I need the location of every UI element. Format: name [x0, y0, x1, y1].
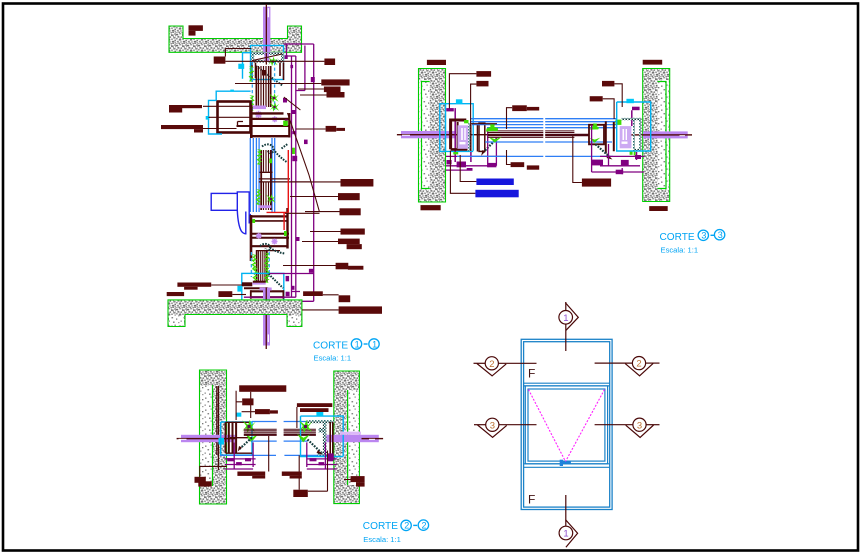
blob above left wall	[427, 60, 446, 65]
top concrete slab hatch	[169, 26, 302, 52]
svg-text:2: 2	[636, 359, 641, 370]
glass blue lines bottom	[457, 142, 613, 156]
right frame members (checker profile)	[307, 420, 334, 455]
svg-text:3: 3	[718, 230, 723, 240]
right purple fills	[310, 453, 334, 465]
glazing cyan dashed lines 1	[252, 62, 274, 110]
blob below right wall	[649, 206, 668, 211]
leaders	[200, 391, 351, 492]
lavender asterisk 1	[255, 111, 262, 118]
glass pane maroon lines	[488, 131, 589, 138]
label CORTE 3-3	[660, 230, 725, 255]
blob head-left	[214, 57, 226, 64]
cyan tab on band at wall	[219, 438, 225, 445]
right wall inner green line	[347, 390, 349, 485]
blob r126	[326, 126, 345, 132]
svg-text:CORTE: CORTE	[660, 232, 695, 243]
glass spacer top	[262, 70, 266, 76]
right glazing bundle	[284, 429, 316, 435]
right diagonal brace	[596, 144, 613, 159]
middle pane frame	[525, 386, 607, 464]
purple fills head right	[285, 55, 294, 68]
bundle 3 cyan dashes	[251, 252, 269, 277]
mid horizontal leader lines through board	[203, 106, 251, 128]
sill cyan detail box	[242, 273, 284, 304]
bottom mullion tube	[263, 288, 270, 350]
sill purple lines	[270, 274, 314, 292]
left diagonal brace	[481, 138, 497, 156]
head frame profile	[252, 52, 285, 80]
bundle 3 edges	[257, 250, 267, 282]
left wall anchor line	[217, 386, 219, 470]
teal gasket curl	[262, 144, 288, 163]
bundle 2 thick edges	[261, 150, 271, 210]
bundle 3 gaskets	[251, 254, 257, 270]
green tabs mid	[252, 219, 286, 236]
svg-text:2: 2	[422, 520, 427, 530]
cyan tab head-left	[238, 64, 244, 69]
lavender asterisk 3	[256, 233, 262, 239]
sill diagonal	[269, 274, 284, 288]
right wall sparse strip	[348, 390, 358, 485]
svg-text:Escala: 1:1: Escala: 1:1	[363, 535, 401, 544]
svg-text:Escala: 1:1: Escala: 1:1	[661, 246, 699, 255]
blob left-105	[169, 105, 202, 113]
section marker 1 top	[559, 302, 578, 351]
glass blue lines top	[471, 119, 617, 128]
sill profile	[242, 282, 284, 299]
left purple substructure	[446, 131, 505, 170]
right purple channel	[307, 442, 337, 469]
left cyan detail box	[440, 104, 473, 152]
left wall sparse zone	[200, 386, 212, 486]
glazing bundle 2	[264, 150, 269, 210]
red reference line	[267, 150, 289, 230]
leader lines	[211, 49, 340, 310]
head gaskets	[249, 66, 255, 82]
blob left-125	[161, 125, 203, 133]
left glazing bundle	[244, 429, 277, 435]
svg-text:3: 3	[637, 420, 642, 431]
svg-text:3: 3	[490, 420, 495, 431]
glazing bundle 1	[259, 66, 269, 107]
svg-text:2: 2	[404, 521, 409, 531]
left sill band lavender	[397, 131, 521, 138]
svg-text:1: 1	[563, 313, 568, 324]
second frame	[524, 342, 610, 507]
purple squares on frame right	[283, 98, 308, 161]
sill band lavender	[177, 435, 384, 442]
purple bottom closing lines	[244, 297, 314, 301]
left cyan detail box	[221, 422, 252, 455]
purple square markers	[296, 77, 315, 273]
left purple fills	[227, 458, 251, 465]
svg-text:CORTE: CORTE	[313, 340, 348, 351]
svg-text:1: 1	[372, 339, 377, 349]
head diagonal strut	[256, 66, 283, 86]
gaskets below bundle 1	[249, 95, 255, 111]
bottom slab sparse feet	[169, 316, 301, 326]
right column blobs	[336, 179, 382, 314]
glazing bundle 3	[259, 250, 265, 282]
cyan tab on board box	[206, 116, 210, 120]
head frame cyan detail box	[251, 46, 284, 80]
blue pivot mark	[560, 460, 571, 466]
bottom concrete slab hatch	[168, 300, 302, 327]
upper right purple projection lines	[284, 44, 314, 301]
cyan tab top	[230, 90, 234, 92]
svg-text:F: F	[528, 493, 535, 507]
right cyan tab	[626, 99, 634, 103]
left jamb frame	[446, 108, 485, 162]
right purple substructure	[592, 125, 645, 174]
head small diagonal	[284, 97, 301, 110]
head internal diagonal	[252, 54, 282, 61]
right wall inner green bracket	[658, 82, 667, 189]
right cyan detail box	[617, 102, 651, 151]
bundle 2 gaskets	[257, 149, 263, 165]
svg-text:Escala: 1:1: Escala: 1:1	[314, 354, 352, 363]
left wall inner green line	[212, 385, 214, 486]
sash meeting rail	[259, 172, 310, 182]
right wall sparse strip	[658, 80, 669, 190]
sill left blobs	[167, 283, 323, 298]
top mullion tube (lavender)	[263, 4, 270, 54]
left gasket top line	[471, 123, 497, 125]
tube continuation into head	[264, 53, 269, 65]
window board box (left)	[218, 102, 251, 133]
top divider	[524, 383, 610, 386]
right cyan detail box	[301, 416, 344, 456]
head frame cyan box extension	[243, 53, 284, 79]
big wedge diagonal	[285, 113, 320, 213]
blob r79	[321, 79, 349, 97]
left wall hatch	[200, 370, 227, 504]
annotation blob on slab	[189, 25, 203, 35]
right gasket X	[299, 420, 312, 433]
left wall sparse strip	[419, 80, 430, 190]
svg-text:3: 3	[701, 231, 706, 241]
svg-text:F: F	[528, 367, 535, 381]
left wall inner green bracket	[422, 82, 430, 189]
left gasket V	[489, 137, 502, 143]
glass blue lines	[220, 422, 331, 456]
left gasket clamp	[486, 124, 498, 131]
section marker 3 right	[595, 418, 660, 437]
blob above right wall	[643, 60, 663, 65]
light violet step above band	[340, 432, 361, 435]
label CORTE 2-2	[363, 520, 429, 544]
right wall hatch	[334, 371, 360, 504]
label CORTE 1-1	[313, 339, 379, 363]
opening V lines magenta	[529, 390, 605, 462]
left purple fills	[447, 160, 497, 170]
right jamb frame	[589, 107, 642, 160]
svg-text:CORTE: CORTE	[363, 521, 398, 532]
svg-text:2: 2	[489, 359, 494, 370]
svg-text:1: 1	[355, 339, 360, 349]
lavender asterisk 4	[272, 239, 278, 245]
blue highlighted blobs	[475, 179, 518, 198]
section marker 2 left	[474, 357, 537, 376]
right diagonal brace	[308, 440, 323, 455]
section marker 2 right	[595, 357, 660, 376]
blobs	[195, 385, 365, 497]
sill purple bits	[286, 276, 295, 296]
left cyan tab	[456, 99, 463, 103]
right cyan tab	[316, 412, 323, 417]
lavender asterisk 2	[272, 116, 278, 122]
left cyan tab	[236, 413, 242, 417]
left wall hatch	[419, 69, 446, 203]
teal gasket curl 2	[260, 244, 285, 254]
left gasket V	[245, 434, 258, 443]
blue glass edge verticals	[250, 138, 274, 212]
transom frame members	[237, 105, 291, 138]
green inserts on frame	[283, 121, 295, 154]
blue handle profile	[211, 192, 250, 234]
left diagonal brace	[238, 438, 252, 452]
left purple channel	[225, 442, 256, 469]
right gaskets	[590, 123, 599, 129]
transom 2 members	[251, 208, 289, 261]
bottom divider	[524, 464, 610, 468]
cyan detail box around board	[209, 91, 251, 134]
right wall hatch	[643, 69, 670, 202]
left frame members	[226, 422, 252, 454]
sill cyan tab	[237, 286, 241, 292]
blob head-right	[324, 59, 335, 66]
top center leaders	[449, 74, 622, 194]
outer frame	[521, 339, 612, 509]
right sill band lavender	[628, 131, 692, 138]
lavender insert mid	[258, 205, 271, 208]
lavender transom insert	[253, 106, 266, 110]
right gasket V	[297, 434, 310, 443]
top center blobs	[476, 71, 614, 187]
right purple fills	[592, 155, 641, 174]
blob below left wall	[421, 205, 441, 210]
section marker 3 left	[474, 418, 537, 437]
left gasket X	[242, 420, 255, 433]
svg-text:1: 1	[563, 529, 568, 540]
section marker 1 bottom	[559, 495, 577, 547]
